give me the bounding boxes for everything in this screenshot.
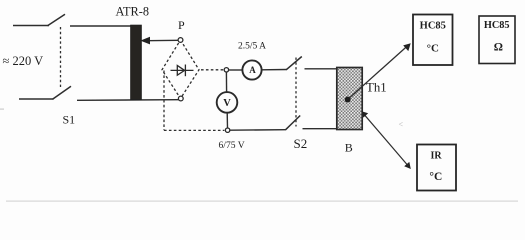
svg-text:S1: S1 (63, 113, 76, 127)
voltmeter V (217, 92, 238, 113)
mechanical link of switch S1 (dashed) (60, 27, 62, 89)
wire: S2 pole 2 to bath B bottom (303, 128, 338, 130)
wiper arrowhead (140, 37, 150, 45)
arrow: Th1 to thermometer HC85 °C (350, 47, 407, 98)
svg-text:P: P (178, 18, 185, 32)
switch S2 pole 1 lever (286, 57, 302, 70)
wire: bottom dashed rail to junction (164, 129, 224, 131)
svg-text:V: V (223, 98, 231, 109)
diode D inside bridge (171, 65, 194, 77)
instrument box IR °C (417, 145, 456, 191)
svg-text:<: < (399, 120, 404, 129)
bath B (stippled body) (337, 68, 362, 130)
wire: junction to ammeter (229, 69, 243, 71)
instrument box HC85 °C (413, 15, 453, 66)
svg-text:6/75 V: 6/75 V (219, 140, 245, 151)
svg-text:≈ 220 V: ≈ 220 V (3, 54, 44, 68)
svg-text:B: B (345, 140, 353, 154)
thermocouple Th1 junction dot (345, 97, 351, 103)
switch S1 pole 2 lever (53, 86, 72, 99)
autotransformer ATR-8 (black body) (131, 25, 142, 100)
svg-text:Ω: Ω (494, 41, 503, 53)
node: bottom junction under voltmeter (225, 128, 229, 132)
faint scan line at bottom edge (6, 201, 518, 202)
wire: AC top line from S1 to ATR-8 (70, 25, 131, 27)
svg-text:HC85: HC85 (484, 20, 510, 31)
mechanical link of switch S2 (dashed) (295, 58, 297, 127)
switch S2 pole 2 lever (286, 116, 301, 130)
svg-text:IR: IR (430, 150, 442, 161)
wire: bridge + output (dashed) to junction node (201, 69, 224, 71)
wire: ammeter to S2 pole 1 (262, 69, 287, 71)
svg-text:ATR-8: ATR-8 (116, 4, 149, 18)
arrow: bath B wall to IR thermometer (double headed) (364, 114, 408, 166)
svg-text:2.5/5 A: 2.5/5 A (238, 42, 266, 52)
faint scan mark left edge (0, 109, 4, 110)
svg-text:Th1: Th1 (366, 81, 387, 95)
node: bridge top vertex (178, 38, 183, 43)
wire: AC bottom rail from S1 to bridge bottom node (77, 99, 179, 102)
node: junction of ammeter and voltmeter branch (top) (224, 68, 228, 72)
ammeter A (242, 60, 261, 79)
wire: junction down to voltmeter (225, 72, 227, 92)
svg-text:A: A (249, 65, 256, 75)
wire: S2 pole 1 to bath B top (305, 68, 338, 70)
node: bridge bottom vertex (178, 96, 183, 101)
svg-text:S2: S2 (294, 136, 308, 151)
svg-text:°C: °C (427, 42, 439, 54)
svg-text:HC85: HC85 (420, 21, 446, 32)
wire: bridge - output, vertical dashed from left vertex (163, 71, 165, 131)
instrument box HC85 Ω (479, 16, 515, 64)
switch S1 pole 1 lever (48, 14, 66, 25)
wire: bottom rail junction to S2 pole 2 (230, 129, 286, 132)
wire: voltmeter down to bottom junction (226, 113, 228, 128)
rectifier bridge P (dashed diamond) (162, 40, 199, 99)
wiper arrow wire from bridge to ATR-8 (147, 39, 179, 41)
wire: AC top line left of S1 (13, 25, 49, 27)
wire: AC bottom line left of S1 (19, 98, 54, 100)
svg-text:°C: °C (429, 171, 442, 183)
